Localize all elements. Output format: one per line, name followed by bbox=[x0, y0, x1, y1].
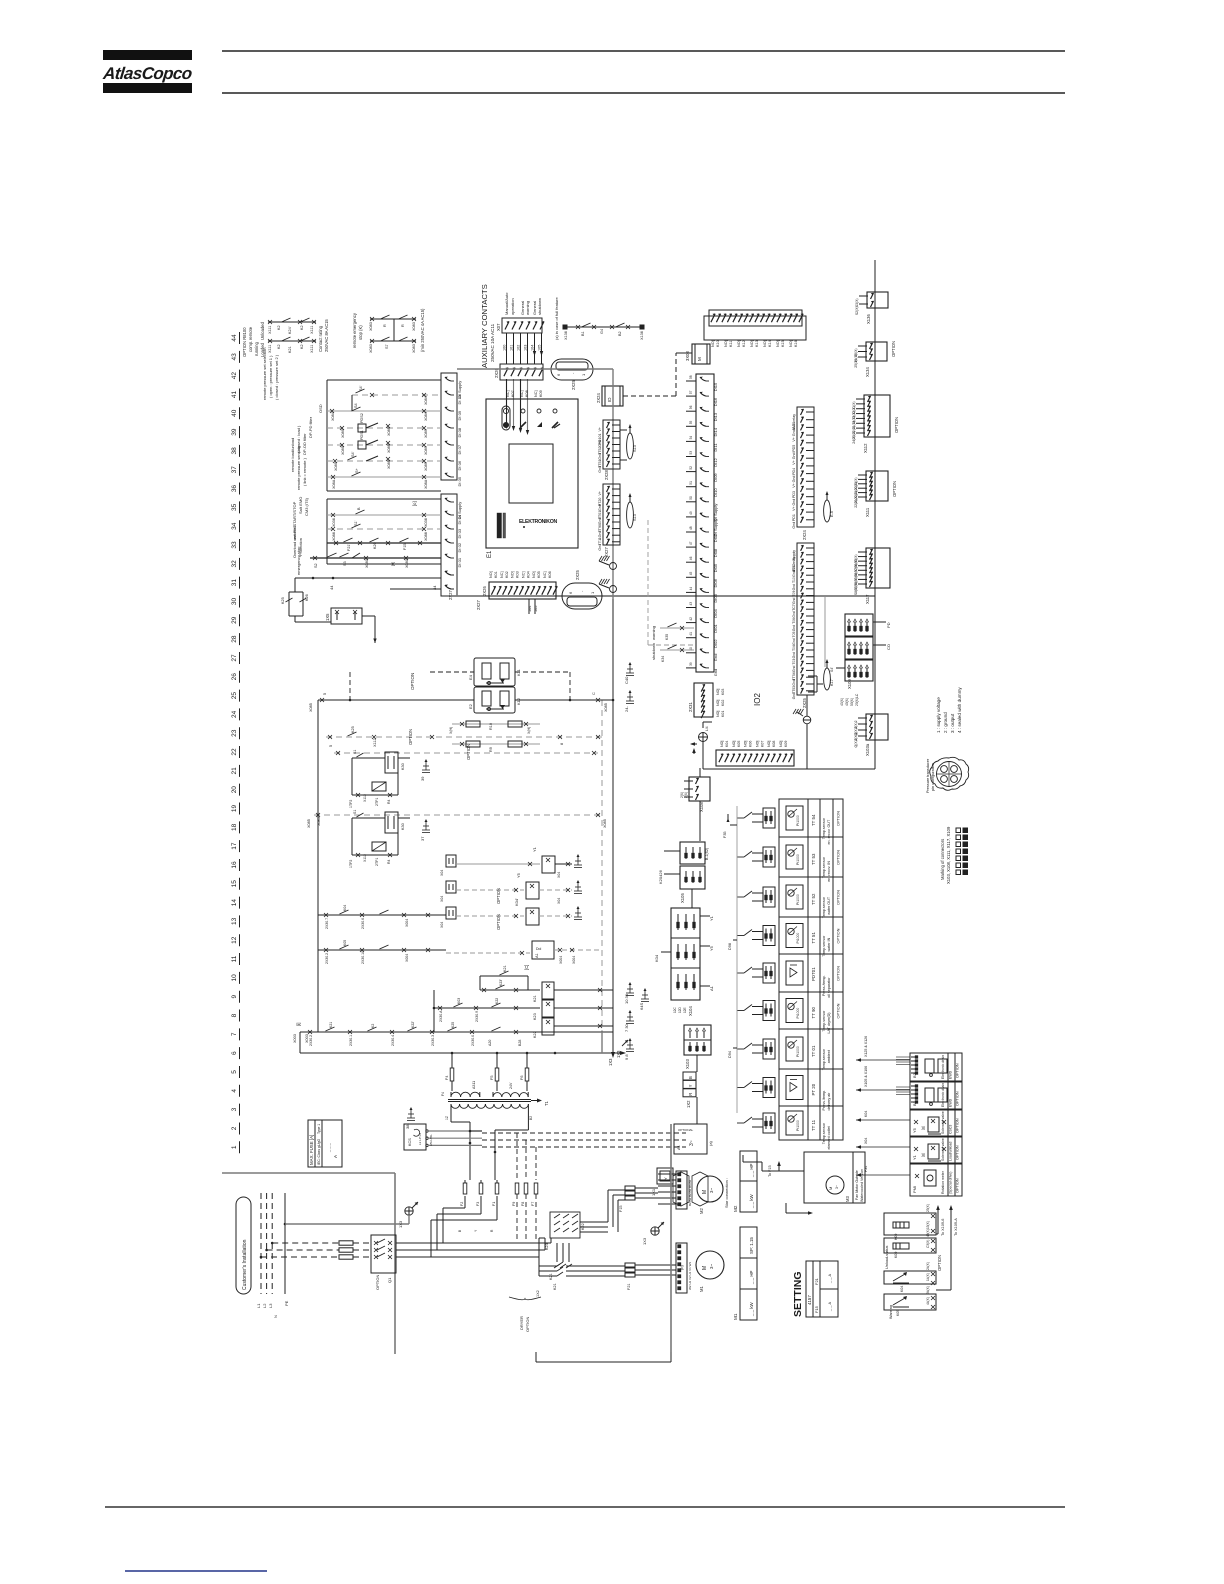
svg-text:remote load/unload: remote load/unload bbox=[290, 438, 295, 472]
svg-text:Press./temp.: Press./temp. bbox=[822, 1090, 826, 1111]
temp sensor TT52 bbox=[737, 885, 841, 918]
svg-text:K25: K25 bbox=[451, 1022, 455, 1028]
svg-text:K15: K15 bbox=[781, 340, 785, 347]
svg-text:remote pressure sensing: remote pressure sensing bbox=[296, 446, 301, 490]
svg-text:AUXILIARY CONTACTS: AUXILIARY CONTACTS bbox=[480, 284, 489, 368]
terminal 1X2 RYB bbox=[683, 1072, 697, 1124]
svg-text:[g]: [g] bbox=[921, 1153, 925, 1157]
svg-text:X080: X080 bbox=[365, 559, 369, 568]
svg-text:(min 250VAC 4A AC15): (min 250VAC 4A AC15) bbox=[420, 308, 425, 352]
svg-text:Gnd: Gnd bbox=[598, 453, 602, 460]
svg-text:NO]: NO] bbox=[716, 700, 720, 706]
svg-text:24: 24 bbox=[231, 710, 238, 718]
connector X103 bbox=[684, 1025, 711, 1072]
svg-text:X089: X089 bbox=[424, 429, 428, 438]
svg-text:K09: K09 bbox=[784, 741, 788, 747]
svg-text:S1: S1 bbox=[353, 810, 357, 814]
svg-text:K22: K22 bbox=[495, 998, 499, 1004]
svg-text:F4: F4 bbox=[441, 1092, 445, 1096]
connector strip 2X28 bbox=[598, 420, 627, 480]
svg-text:5: 5 bbox=[231, 1070, 238, 1074]
svg-text:NO]: NO] bbox=[489, 571, 493, 578]
svg-text:S1: S1 bbox=[353, 750, 357, 754]
svg-text:M2: M2 bbox=[733, 1205, 738, 1212]
svg-text:Marking of connectors: Marking of connectors bbox=[940, 839, 945, 880]
svg-text:K21: K21 bbox=[533, 995, 537, 1002]
svg-text:TT 11: TT 11 bbox=[811, 1119, 816, 1131]
svg-text:2X27: 2X27 bbox=[448, 590, 453, 600]
svg-text:F6: F6 bbox=[520, 1076, 524, 1080]
svg-text:20: 20 bbox=[231, 786, 238, 794]
svg-text:B: B bbox=[688, 1076, 693, 1079]
connector 2X31 bbox=[688, 683, 725, 718]
svg-text:[C]: [C] bbox=[524, 965, 529, 970]
svg-text:_ _ _: _ _ _ bbox=[326, 1142, 331, 1153]
IO1 strip upper outline bbox=[441, 373, 457, 480]
K09 loop 2 bbox=[884, 1229, 936, 1258]
svg-text:46: 46 bbox=[689, 556, 693, 560]
svg-text:X111: X111 bbox=[268, 345, 272, 353]
enclosure boundary gray bbox=[222, 1173, 395, 1354]
svg-text:Star connection :: Star connection : bbox=[724, 1178, 729, 1208]
svg-text:52: 52 bbox=[689, 466, 693, 470]
svg-text:2X30.6: 2X30.6 bbox=[361, 918, 365, 929]
svg-text:K09: K09 bbox=[894, 1234, 898, 1240]
svg-text:Pt1000: Pt1000 bbox=[796, 854, 800, 865]
row remote pressure sensing bbox=[296, 446, 441, 490]
svg-text:2X30.2: 2X30.2 bbox=[325, 953, 329, 964]
svg-text:K25: K25 bbox=[351, 726, 355, 733]
svg-text:OSD: OSD bbox=[318, 404, 323, 413]
svg-text:DI 08: DI 08 bbox=[457, 427, 462, 437]
svg-text:NC]: NC] bbox=[520, 390, 524, 397]
svg-text:NO]: NO] bbox=[511, 571, 515, 578]
svg-text:1X1: 1X1 bbox=[651, 1188, 656, 1196]
controller E1 outline bbox=[486, 399, 578, 548]
svg-text:KCS: KCS bbox=[408, 1138, 412, 1146]
svg-text:2: 2 bbox=[231, 1126, 238, 1130]
svg-text:OPTION: OPTION bbox=[466, 744, 471, 760]
svg-text:PDT01: PDT01 bbox=[811, 967, 816, 981]
svg-text:(x) in case of full feature: (x) in case of full feature bbox=[554, 297, 559, 340]
svg-text:Gnd: Gnd bbox=[792, 652, 796, 659]
svg-text:ELEKTRONIKON: ELEKTRONIKON bbox=[519, 519, 557, 525]
svg-text:operation: operation bbox=[510, 298, 515, 315]
svg-text:E-5: E-5 bbox=[830, 511, 834, 517]
svg-text:56: 56 bbox=[689, 405, 693, 409]
svg-text:_ _ HP: _ _ HP bbox=[749, 1271, 754, 1285]
svg-text:S13: S13 bbox=[633, 445, 637, 452]
svg-text:X083: X083 bbox=[412, 344, 416, 353]
wire row 2X30.2 K05 bbox=[318, 940, 446, 964]
motor M1 leads bbox=[539, 1257, 625, 1290]
svg-text:SP: 1.15: SP: 1.15 bbox=[749, 1237, 754, 1254]
ground 1X3 below trunk bbox=[611, 1045, 621, 1058]
svg-text:X111: X111 bbox=[268, 326, 272, 334]
svg-text:28: 28 bbox=[231, 635, 238, 643]
svg-text:Pt1000: Pt1000 bbox=[796, 815, 800, 826]
svg-text:NO]: NO] bbox=[789, 340, 793, 347]
svg-text:K03: K03 bbox=[721, 689, 725, 695]
svg-text:Gnd: Gnd bbox=[792, 499, 796, 506]
svg-text:2X27: 2X27 bbox=[476, 600, 481, 610]
svg-text:1X3: 1X3 bbox=[398, 1220, 403, 1228]
svg-text:OPTIONAL: OPTIONAL bbox=[678, 1128, 694, 1132]
relay strip K10-K16 pins bbox=[709, 310, 803, 326]
svg-text:L3 LP L3: L3 LP L3 bbox=[418, 1133, 422, 1145]
svg-text:X136: X136 bbox=[640, 331, 644, 340]
wire trunk left x318 bbox=[317, 700, 319, 1032]
svg-text:27: 27 bbox=[231, 654, 238, 662]
svg-text:13(X): 13(X) bbox=[926, 1221, 930, 1229]
svg-text:PD4: PD4 bbox=[792, 468, 796, 475]
svg-text:F21: F21 bbox=[627, 1283, 631, 1290]
svg-text:TT 51: TT 51 bbox=[811, 932, 816, 944]
svg-text:101: 101 bbox=[510, 345, 514, 351]
svg-text:1X2: 1X2 bbox=[536, 1290, 540, 1297]
svg-text:F9: F9 bbox=[512, 1202, 516, 1206]
svg-text:TT 53: TT 53 bbox=[811, 853, 816, 865]
dryer option label bbox=[509, 1290, 541, 1332]
svg-text:M: M bbox=[702, 1190, 708, 1194]
svg-text:S4': S4' bbox=[359, 385, 363, 391]
cap symbol 37 bbox=[425, 822, 427, 830]
svg-text:X088: X088 bbox=[332, 532, 336, 541]
svg-text:3: 3 bbox=[231, 1107, 238, 1111]
row remote pressure set selection bbox=[262, 348, 441, 411]
svg-text:X103: X103 bbox=[685, 1059, 690, 1069]
svg-text:X109: X109 bbox=[847, 679, 852, 689]
svg-text:C40: C40 bbox=[624, 676, 629, 684]
svg-text:10 30: 10 30 bbox=[624, 993, 629, 1004]
svg-text:X083: X083 bbox=[369, 322, 373, 331]
svg-text:K04: K04 bbox=[526, 571, 530, 578]
svg-text:43(X): 43(X) bbox=[840, 698, 844, 706]
ground 1X3 right of bus bbox=[608, 1040, 628, 1066]
svg-text:Gnd: Gnd bbox=[792, 429, 796, 436]
svg-text:(Special drive): (Special drive) bbox=[949, 1172, 953, 1194]
svg-text:S4: S4 bbox=[354, 403, 358, 408]
svg-text:R10: R10 bbox=[489, 723, 493, 730]
row OSD bbox=[318, 403, 441, 421]
contactor K22 K23 grid bbox=[443, 1212, 585, 1257]
svg-text:34(X): 34(X) bbox=[926, 1286, 930, 1294]
svg-text:F7: F7 bbox=[531, 1202, 535, 1206]
svg-text:104: 104 bbox=[531, 345, 535, 351]
svg-text:44: 44 bbox=[329, 585, 334, 590]
svg-text:OPTION: OPTION bbox=[836, 890, 841, 905]
footer rule bbox=[105, 1506, 1065, 1508]
svg-text:PMI: PMI bbox=[912, 1186, 917, 1193]
svg-text:6: 6 bbox=[231, 1051, 238, 1055]
svg-text:V+: V+ bbox=[598, 427, 602, 432]
svg-text:Gnd: Gnd bbox=[792, 597, 796, 604]
row circuits enclosure upper bbox=[327, 380, 441, 491]
svg-text:delivery air: delivery air bbox=[827, 1092, 831, 1111]
svg-text:1X3: 1X3 bbox=[608, 1058, 613, 1066]
svg-text:X080: X080 bbox=[405, 559, 409, 568]
IO2 input pins bbox=[686, 375, 718, 676]
svg-text:13: 13 bbox=[231, 917, 238, 925]
svg-text:DP-PD filter: DP-PD filter bbox=[308, 416, 313, 438]
svg-text:K10: K10 bbox=[716, 340, 720, 347]
svg-text:TT53: TT53 bbox=[792, 686, 796, 694]
row protection overload bbox=[292, 524, 441, 558]
svg-text:2X24: 2X24 bbox=[596, 393, 601, 403]
wire trunk right x602 dashed bbox=[601, 700, 603, 1032]
svg-text:PD3: PD3 bbox=[792, 491, 796, 498]
option block PMI bbox=[910, 1164, 962, 1196]
solenoid K04 option bbox=[456, 898, 582, 930]
svg-text:2X27: 2X27 bbox=[604, 547, 609, 557]
svg-text:Warning: Warning bbox=[889, 1305, 893, 1319]
svg-text:1Z: 1Z bbox=[445, 1116, 449, 1120]
svg-text:49: 49 bbox=[689, 511, 693, 515]
row remote load-unload bbox=[290, 438, 441, 472]
svg-text:F2: F2 bbox=[460, 1202, 464, 1206]
svg-text:T06: T06 bbox=[792, 618, 796, 624]
svg-text:OPTION: OPTION bbox=[836, 1003, 841, 1018]
svg-text:1X3: 1X3 bbox=[642, 1237, 647, 1245]
svg-text:ambient: ambient bbox=[827, 1050, 831, 1063]
svg-text:_ _ kW: _ _ kW bbox=[749, 1301, 754, 1317]
svg-text:X089: X089 bbox=[341, 446, 345, 455]
svg-text:25(X): 25(X) bbox=[854, 360, 858, 368]
svg-text:Y5: Y5 bbox=[516, 872, 521, 878]
svg-text:K14: K14 bbox=[768, 340, 772, 347]
fuses F1 F2 F3 bbox=[458, 1180, 499, 1232]
svg-text:B1: B1 bbox=[581, 331, 585, 336]
connector 3X03 bbox=[680, 344, 710, 364]
option block Y1 bbox=[910, 1137, 962, 1163]
svg-text:7 30: 7 30 bbox=[624, 1023, 629, 1032]
svg-text:M: M bbox=[828, 1187, 833, 1190]
svg-text:2X30.10: 2X30.10 bbox=[361, 951, 365, 964]
svg-text:2X30.3: 2X30.3 bbox=[431, 1035, 435, 1046]
svg-text:IO2: IO2 bbox=[753, 693, 762, 706]
svg-text:X105: X105 bbox=[680, 893, 685, 903]
svg-text:55: 55 bbox=[689, 421, 693, 425]
E1 display window bbox=[509, 444, 553, 503]
svg-text:TT 52: TT 52 bbox=[811, 893, 816, 905]
shield oval S13 lower bbox=[627, 493, 637, 528]
svg-text:_ _ A: _ _ A bbox=[827, 1302, 832, 1312]
auxiliary contacts heading bbox=[480, 284, 495, 368]
svg-text:F15': F15' bbox=[403, 542, 407, 550]
svg-text:K30: K30 bbox=[401, 823, 405, 830]
min contact rating text bbox=[420, 308, 425, 352]
svg-text:_ _ kW: _ _ kW bbox=[749, 1193, 754, 1209]
svg-text:shutdown: shutdown bbox=[537, 298, 542, 315]
svg-text:CM3 (IT5): CM3 (IT5) bbox=[304, 497, 309, 516]
svg-text:105: 105 bbox=[534, 606, 538, 612]
svg-text:NO]: NO] bbox=[720, 741, 724, 747]
svg-text:OPTION: OPTION bbox=[937, 1255, 942, 1271]
svg-text:3 : output: 3 : output bbox=[950, 713, 955, 733]
svg-text:V+: V+ bbox=[598, 491, 602, 496]
svg-text:S13: S13 bbox=[633, 514, 637, 521]
svg-text:DI14: DI14 bbox=[713, 427, 718, 436]
starter module box a bbox=[674, 1124, 713, 1154]
svg-text:DI 01: DI 01 bbox=[457, 557, 462, 567]
svg-text:X103a: X103a bbox=[865, 743, 870, 756]
svg-text:Load/unload: Load/unload bbox=[949, 1142, 953, 1161]
svg-text:K23': K23' bbox=[499, 979, 503, 986]
resistor pair R9 lower bbox=[452, 741, 540, 752]
full feature contact chain bbox=[554, 297, 644, 340]
svg-text:2(X): 2(X) bbox=[684, 792, 688, 798]
row DP-PD filter bbox=[308, 413, 441, 438]
branch K25 K26 contacts bbox=[281, 578, 331, 622]
K05 warning loop bbox=[884, 1286, 936, 1319]
svg-text:V+: V+ bbox=[792, 506, 796, 511]
svg-text:M2: M2 bbox=[699, 1208, 704, 1214]
svg-text:PD1: PD1 bbox=[792, 514, 796, 521]
svg-text:Y5: Y5 bbox=[912, 1127, 917, 1133]
svg-text:K06: K06 bbox=[548, 571, 552, 578]
svg-text:A311: A311 bbox=[472, 1081, 476, 1089]
svg-text:4: 4 bbox=[231, 1089, 238, 1093]
svg-text:X084: X084 bbox=[424, 412, 428, 421]
wire 44 row bbox=[295, 577, 441, 590]
svg-text:33: 33 bbox=[231, 541, 238, 549]
svg-text:40(X): 40(X) bbox=[845, 698, 849, 706]
svg-text:K02: K02 bbox=[721, 700, 725, 706]
option block feed wires bbox=[856, 1036, 910, 1177]
svg-text:K24': K24' bbox=[288, 326, 292, 334]
svg-text:AtlasCopco: AtlasCopco bbox=[101, 64, 193, 83]
svg-text:DI12: DI12 bbox=[713, 457, 718, 466]
X07 signal labels bbox=[504, 292, 542, 315]
svg-text:V+: V+ bbox=[792, 460, 796, 465]
terminal strip M2 bbox=[658, 1171, 692, 1209]
svg-text:A1: A1 bbox=[535, 953, 539, 958]
svg-text:T03: T03 bbox=[792, 659, 796, 665]
option block B2 bbox=[910, 1053, 962, 1081]
svg-text:22(X): 22(X) bbox=[854, 500, 858, 508]
svg-text:K13: K13 bbox=[755, 340, 759, 347]
svg-text:shutdown: shutdown bbox=[651, 643, 656, 660]
motor rating table M2 bbox=[733, 1151, 757, 1212]
wire to X109-A bbox=[936, 1205, 958, 1290]
svg-text:X112: X112 bbox=[363, 794, 367, 802]
ground 1X3 mid bbox=[642, 1222, 664, 1245]
svg-text:Q(X)2: Q(X)2 bbox=[854, 738, 858, 747]
svg-text:NO]: NO] bbox=[716, 689, 720, 695]
svg-text:2 : ground: 2 : ground bbox=[943, 712, 948, 733]
svg-text:CO: CO bbox=[886, 644, 891, 650]
connector X103a bbox=[854, 714, 888, 756]
svg-text:_ _ HP: _ _ HP bbox=[749, 1164, 754, 1178]
option row y737 dashed bbox=[326, 726, 602, 747]
svg-text:12C: 12C bbox=[673, 1006, 677, 1013]
fan motor M3 box bbox=[804, 1152, 865, 1203]
thermostat block K30 E5 bbox=[349, 750, 410, 808]
connector 1X5 bbox=[325, 608, 377, 643]
svg-text:R: R bbox=[688, 1093, 693, 1096]
svg-text:Temp.sensor: Temp.sensor bbox=[822, 1122, 826, 1144]
svg-text:_ _ A: _ _ A bbox=[827, 1274, 832, 1284]
svg-text:250VAC 8A AC15: 250VAC 8A AC15 bbox=[324, 319, 329, 352]
svg-text:39: 39 bbox=[231, 428, 238, 436]
svg-text:X112: X112 bbox=[363, 854, 367, 862]
svg-text:8: 8 bbox=[560, 743, 564, 745]
svg-text:C: C bbox=[592, 692, 596, 695]
svg-text:K08: K08 bbox=[525, 390, 529, 397]
wire row 2X30.7 K04 bbox=[318, 905, 446, 929]
svg-text:45: 45 bbox=[689, 572, 693, 576]
svg-text:Pt1000: Pt1000 bbox=[796, 1008, 800, 1019]
svg-text:(a): (a) bbox=[708, 1140, 713, 1146]
svg-text:2X30.2: 2X30.2 bbox=[309, 1035, 313, 1046]
svg-text:11: 11 bbox=[231, 955, 238, 962]
temp sensor TT11 bbox=[737, 1111, 831, 1150]
svg-text:X103, X108, X111, X117, X109: X103, X108, X111, X117, X109 bbox=[946, 826, 951, 884]
svg-text:24(X): 24(X) bbox=[926, 1262, 930, 1270]
K04 unload status loop bbox=[884, 1245, 936, 1292]
svg-text:C3(X): C3(X) bbox=[926, 1240, 930, 1248]
svg-text:K22: K22 bbox=[533, 1031, 537, 1038]
svg-text:OPTION: OPTION bbox=[525, 1317, 530, 1332]
svg-text:31: 31 bbox=[231, 579, 238, 587]
svg-text:OPTION: OPTION bbox=[836, 850, 841, 865]
svg-text:M: M bbox=[702, 1266, 708, 1270]
relay strip K10-K16 outer bbox=[704, 316, 806, 340]
svg-text:Pt1000: Pt1000 bbox=[796, 933, 800, 944]
svg-text:44(X): 44(X) bbox=[926, 1297, 930, 1305]
svg-text:K05: K05 bbox=[537, 571, 541, 578]
svg-text:K05: K05 bbox=[896, 1310, 900, 1316]
KCS box bbox=[404, 1124, 482, 1150]
svg-text:41: 41 bbox=[689, 632, 693, 636]
svg-text:40: 40 bbox=[231, 409, 238, 417]
svg-text:K07: K07 bbox=[760, 741, 764, 747]
svg-text:Y5: Y5 bbox=[709, 945, 714, 951]
option block Y5 bbox=[910, 1110, 962, 1136]
svg-text:X112: X112 bbox=[863, 443, 868, 453]
svg-text:NO]: NO] bbox=[532, 571, 536, 578]
shield oval S13 upper bbox=[627, 424, 637, 459]
fan motor feed wires bbox=[743, 1155, 813, 1215]
analog shield node circle bbox=[793, 695, 811, 769]
svg-text:K04: K04 bbox=[654, 954, 659, 962]
svg-text:OPTION: OPTION bbox=[496, 914, 501, 930]
svg-text:X(H): X(H) bbox=[527, 727, 531, 734]
svg-text:remote emergency: remote emergency bbox=[352, 312, 357, 348]
contactor K21 upper bbox=[549, 1243, 572, 1280]
grid reference numbers 1-44 bbox=[231, 332, 240, 1153]
cap symbol 39 bbox=[425, 762, 427, 770]
svg-text:64S: 64S bbox=[639, 1003, 644, 1010]
svg-text:15: 15 bbox=[231, 880, 238, 888]
svg-text:2TP1: 2TP1 bbox=[375, 858, 379, 866]
analog strip AO upper bbox=[792, 407, 814, 540]
svg-text:36: 36 bbox=[231, 485, 238, 493]
svg-text:100: 100 bbox=[503, 345, 507, 351]
fuse F4 bbox=[445, 1053, 454, 1091]
option block B1 bbox=[910, 1082, 962, 1109]
svg-text:12: 12 bbox=[231, 936, 238, 944]
svg-text:OPTION: OPTION bbox=[894, 417, 899, 433]
svg-text:2X30.0: 2X30.0 bbox=[471, 1035, 475, 1046]
terminal 1X1 bbox=[651, 1168, 673, 1196]
emergency stop contact row 2 bbox=[369, 337, 416, 353]
svg-text:9 8: 9 8 bbox=[624, 1054, 629, 1060]
contact rating text bbox=[318, 319, 329, 352]
temp sensor TT54 bbox=[737, 806, 841, 845]
svg-text:F5: F5 bbox=[490, 1076, 494, 1080]
svg-text:DI04: DI04 bbox=[713, 608, 718, 617]
